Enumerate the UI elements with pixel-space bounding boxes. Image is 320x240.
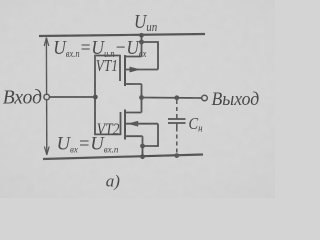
output terminal circle bbox=[202, 95, 208, 101]
VT2 drain stub bbox=[125, 112, 142, 114]
junction dot capacitor tap bbox=[174, 95, 179, 100]
junction dot capacitor at rail bbox=[174, 153, 179, 158]
VT2 gate bar bbox=[120, 112, 122, 134]
node: input voltage dimension line bbox=[45, 38, 47, 154]
junction dot substrate tie bbox=[139, 40, 144, 45]
VT1 gate lead bbox=[94, 55, 121, 57]
VT1 drain stub bbox=[125, 83, 142, 85]
junction dot on gate riser bbox=[93, 95, 98, 100]
VT2 source stub bbox=[125, 135, 143, 137]
wire: top supply rail bbox=[39, 34, 205, 36]
down arrowhead at common rail bbox=[44, 147, 49, 156]
VT1 substrate stub with arrow bbox=[125, 69, 158, 71]
VT2 channel bar bbox=[124, 110, 126, 140]
wire: input to gate riser bbox=[50, 96, 96, 98]
capacitor Cн plates bbox=[168, 118, 186, 120]
wire: VT2 source to common rail bbox=[142, 136, 144, 157]
junction dot substrate/source bbox=[140, 144, 145, 149]
wire: output bbox=[142, 97, 202, 100]
wire: common gate riser bbox=[94, 56, 96, 135]
wire: bottom common rail bbox=[43, 155, 203, 160]
wire: VT2 substrate tie loop bbox=[143, 124, 159, 146]
input terminal circle bbox=[44, 94, 50, 100]
junction dot at supply rail bbox=[139, 33, 144, 38]
VT2 substrate stub with arrow bbox=[125, 123, 158, 125]
node: output junction dot bbox=[139, 95, 144, 100]
VT2 gate lead bbox=[94, 133, 121, 135]
VT1 channel bar bbox=[124, 55, 126, 86]
wire: VT1 drain to output node bbox=[141, 84, 143, 113]
capacitor Cн dashed leads bbox=[176, 100, 178, 115]
up arrowhead at supply rail bbox=[44, 38, 49, 47]
VT1 gate bar bbox=[119, 56, 121, 82]
wire: supply drop to VT1 source bbox=[141, 35, 143, 57]
junction dot at common rail bbox=[140, 154, 145, 159]
wire: VT1 substrate tie loop bbox=[142, 42, 159, 70]
VT1 source stub bbox=[125, 56, 142, 58]
